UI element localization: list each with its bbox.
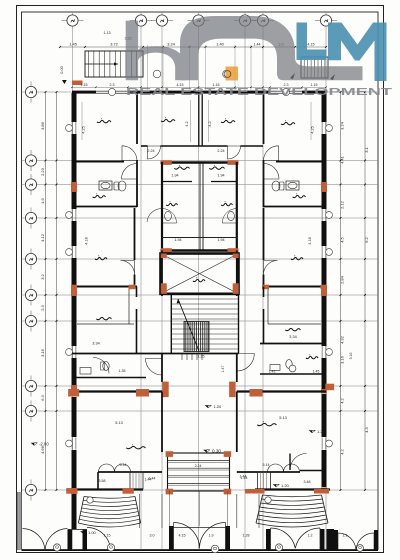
side bedroom bottom walls: [72, 161, 326, 163]
right kitchen label: [285, 328, 300, 330]
svg-text:4.2: 4.2: [185, 121, 189, 126]
row grid bubbles (left): [25, 82, 36, 501]
right bath door arc: [264, 164, 280, 180]
svg-text:3.48: 3.48: [304, 480, 311, 484]
left gate leaf: [87, 528, 111, 552]
svg-text:1.2: 1.2: [308, 534, 313, 538]
central bath arc L: [162, 209, 177, 224]
right bath label2: [306, 356, 318, 358]
svg-text:4.25: 4.25: [82, 126, 86, 133]
right bath bottom wall: [263, 206, 326, 208]
left garden fan steps: [78, 497, 140, 528]
svg-text:1.20: 1.20: [214, 404, 223, 409]
aux circle c: [289, 365, 296, 372]
right kitchen top wall: [262, 285, 327, 290]
bedroom2 label: [161, 119, 175, 121]
central bath label R: [221, 203, 232, 205]
svg-text:3.58: 3.58: [99, 479, 106, 483]
left gate arcs: [23, 529, 46, 552]
top dim line: [59, 41, 327, 48]
salon top wall: [68, 384, 334, 397]
property hatch bottom-left: [17, 492, 21, 550]
top entry stair: [85, 51, 143, 77]
left kitchen right wall: [136, 287, 138, 354]
porch side walls: [140, 494, 260, 528]
terrace base line: [22, 550, 379, 552]
central bath toilet R: [228, 211, 235, 220]
left bath sink: [99, 181, 112, 190]
right bath toilet: [286, 360, 292, 369]
HALM watermark logo: [126, 16, 394, 98]
svg-text:6.3: 6.3: [40, 394, 45, 400]
bedroom5 label: [95, 257, 107, 259]
rear band wall y353: [72, 353, 239, 355]
central block bottom wall: [161, 248, 239, 254]
svg-text:4.5: 4.5: [340, 236, 345, 242]
svg-text:1.9: 1.9: [40, 197, 45, 203]
rc gate arcs: [271, 528, 321, 548]
svg-text:4.15: 4.15: [179, 534, 186, 538]
svg-text:3.86: 3.86: [40, 121, 45, 130]
svg-text:1.44: 1.44: [149, 477, 156, 481]
corridor right wall: [236, 251, 238, 297]
bedroom6 left wall: [263, 208, 265, 286]
dressing label left: [174, 167, 189, 169]
right salon inner wall: [300, 470, 326, 472]
left salon bottom wall: [66, 488, 143, 494]
central block left wall: [161, 162, 163, 251]
svg-text:4.18: 4.18: [308, 237, 312, 244]
bedroom1 label: [97, 120, 111, 122]
svg-text:-2.00: -2.00: [39, 442, 49, 447]
svg-text:1.9: 1.9: [209, 534, 214, 538]
svg-text:5.14: 5.14: [120, 463, 127, 467]
hall door arc R: [237, 354, 255, 372]
svg-text:1.94: 1.94: [174, 238, 181, 242]
svg-text:4.66: 4.66: [40, 445, 45, 454]
right salon bay wall: [237, 471, 300, 473]
svg-text:3.24: 3.24: [340, 121, 345, 130]
left wc toilet: [103, 362, 109, 371]
top-right entry stair: [290, 57, 335, 80]
svg-text:5.14: 5.14: [263, 463, 270, 467]
terrace walls: [162, 392, 237, 453]
svg-text:4.2: 4.2: [340, 397, 345, 403]
svg-text:6.2: 6.2: [364, 236, 369, 242]
right salon door arc: [290, 454, 307, 471]
aux circle b: [223, 70, 231, 78]
svg-text:4.32: 4.32: [340, 335, 345, 344]
left salon bay sides: [97, 472, 99, 490]
svg-text:0.30: 0.30: [212, 449, 221, 454]
center gate lintel: [169, 527, 230, 529]
svg-text:2.3: 2.3: [40, 304, 45, 310]
fan circle L: [87, 497, 93, 503]
right bath top wall: [260, 343, 326, 345]
svg-text:2.24: 2.24: [217, 149, 224, 153]
svg-text:1.40: 1.40: [216, 41, 224, 46]
orange col below stair: [72, 81, 83, 86]
right bath sink2: [270, 365, 280, 371]
bedroom6 label: [291, 257, 303, 259]
orange corridor col L: [162, 382, 169, 398]
light well shaft: [161, 254, 239, 294]
svg-text:1.47: 1.47: [221, 366, 225, 373]
fan circle R: [265, 497, 271, 503]
svg-text:5.13: 5.13: [115, 420, 123, 425]
rc gate jambs: [266, 529, 271, 551]
left gate jambs: [68, 530, 73, 551]
door arc bedroom2: [148, 146, 161, 159]
svg-text:2.24: 2.24: [147, 149, 154, 153]
right bath bottom wall: [260, 373, 326, 375]
dressing label right: [209, 167, 224, 169]
svg-text:1.20: 1.20: [317, 429, 326, 434]
svg-text:1.94: 1.94: [217, 174, 224, 178]
center gate arcs: [174, 523, 226, 549]
svg-text:1.94: 1.94: [217, 238, 224, 242]
center gate jambs: [169, 526, 174, 551]
svg-text:1.45: 1.45: [313, 370, 320, 374]
corridor strip wall y146: [141, 145, 263, 147]
door arc bedroom1: [122, 146, 137, 161]
center rails: [169, 491, 227, 526]
door arc bedroom4: [264, 146, 279, 161]
central line y237: [162, 237, 237, 239]
central bath arc R: [222, 209, 237, 224]
svg-text:4.18: 4.18: [85, 237, 89, 244]
column grid bubbles (top): [62, 15, 338, 26]
svg-text:3.16: 3.16: [340, 355, 345, 364]
left bath door arc: [122, 164, 138, 180]
left salon bay wall: [98, 471, 162, 473]
corridor door L: [147, 208, 162, 222]
wall between bedroom1 and bedroom2 (x137): [136, 93, 138, 207]
right garden fan steps: [256, 495, 328, 527]
left salon label: [126, 446, 145, 448]
dressing/bath divider: [162, 181, 237, 183]
svg-text:2.24: 2.24: [195, 464, 202, 468]
center steps: [166, 451, 232, 494]
left porch col wall: [72, 494, 77, 529]
fr gate jambs: [327, 529, 335, 551]
svg-text:3.34: 3.34: [92, 342, 99, 346]
main staircase: [171, 295, 238, 354]
center drain: [211, 545, 219, 553]
svg-text:3.0: 3.0: [150, 534, 155, 538]
corridor left wall: [161, 251, 163, 297]
svg-text:5.13: 5.13: [279, 415, 287, 420]
bedroom5 right wall: [134, 208, 136, 286]
svg-text:4.2: 4.2: [208, 121, 212, 126]
left bath bottom wall: [72, 206, 137, 208]
right planter: [258, 472, 271, 489]
central partition x201: [199, 162, 201, 251]
central bath toilet L: [165, 211, 172, 220]
svg-text:3.1: 3.1: [364, 146, 369, 152]
left wc door arc: [93, 358, 109, 374]
left kitchen label: [96, 317, 111, 319]
svg-text:1.20: 1.20: [281, 483, 290, 488]
left bath toilet: [114, 182, 119, 190]
left kitchen counter: [77, 289, 134, 324]
svg-text:4.12: 4.12: [40, 233, 45, 242]
svg-text:2.23: 2.23: [40, 167, 45, 176]
svg-text:1.13: 1.13: [104, 31, 111, 35]
right bath toilet: [279, 182, 284, 190]
right salon label: [257, 423, 276, 425]
left kitchen top wall: [71, 285, 137, 290]
upper dim row: [71, 83, 327, 88]
left wc bottom wall: [72, 377, 146, 379]
hall door arc L: [146, 359, 163, 376]
svg-text:2.3: 2.3: [110, 83, 115, 87]
svg-text:3.16: 3.16: [40, 348, 45, 357]
central bath label L: [166, 203, 177, 205]
left bath label: [93, 195, 106, 197]
svg-text:1.44: 1.44: [240, 475, 247, 479]
aux circle a: [153, 70, 161, 78]
svg-text:1.15: 1.15: [104, 534, 111, 538]
stair lower treads: [182, 354, 202, 361]
right exterior wall: [321, 93, 332, 491]
bedroom3 label: [221, 120, 235, 122]
left dimension chain: [40, 91, 57, 491]
wall x200 center bedrooms: [199, 93, 202, 146]
central block right wall: [236, 162, 238, 251]
svg-text:2.12: 2.12: [340, 200, 345, 209]
bedroom dims vertical: [82, 121, 315, 133]
svg-text:3.72: 3.72: [110, 41, 118, 46]
svg-text:4.25: 4.25: [311, 126, 315, 133]
door arc bedroom3: [228, 146, 241, 159]
svg-text:0.00: 0.00: [60, 66, 64, 73]
svg-text:4.3: 4.3: [364, 426, 369, 432]
right bath sink: [286, 181, 299, 190]
right dimension chain: [340, 91, 369, 491]
corridor walls lower: [162, 354, 237, 383]
fr gate arcs: [338, 533, 374, 551]
svg-text:1.15: 1.15: [81, 83, 88, 87]
wall x263 bedrooms: [263, 93, 265, 207]
light well label: [193, 279, 205, 281]
left drains: [53, 544, 60, 551]
left porch lintel: [68, 529, 88, 531]
left wc sink: [80, 368, 91, 375]
rc drain: [275, 544, 282, 551]
svg-text:3.34: 3.34: [289, 335, 296, 339]
svg-text:2.84: 2.84: [340, 275, 345, 284]
right bath label: [293, 195, 306, 197]
bedroom dim lines: [82, 100, 311, 142]
dressing top wall: [161, 160, 239, 165]
right kitchen counter: [268, 289, 321, 324]
svg-text:1.94: 1.94: [171, 174, 178, 178]
left planter: [130, 472, 143, 489]
bedroom5 door arc: [121, 261, 135, 275]
svg-text:4.2: 4.2: [340, 448, 345, 454]
bedroom6 door arc: [264, 261, 278, 275]
svg-text:1.42: 1.42: [269, 370, 276, 374]
svg-text:1.35: 1.35: [119, 369, 126, 373]
svg-text:3.2: 3.2: [40, 273, 45, 279]
svg-text:4.15: 4.15: [308, 43, 315, 47]
bedroom4 label: [281, 122, 295, 124]
svg-text:1.25: 1.25: [197, 355, 204, 359]
orange corridor col R: [229, 382, 236, 398]
svg-text:REAL ESTATE DEVELOPMENT: REAL ESTATE DEVELOPMENT: [126, 87, 393, 98]
right kitchen left wall: [263, 287, 265, 344]
svg-text:3.24: 3.24: [167, 41, 175, 46]
svg-text:1.44: 1.44: [254, 43, 261, 47]
fr drain: [357, 545, 364, 552]
svg-text:1.28: 1.28: [243, 534, 250, 538]
left exterior wall: [66, 93, 77, 494]
svg-text:4.41: 4.41: [340, 155, 345, 164]
top extension lines: [148, 45, 252, 90]
left salon dim line: [80, 410, 160, 412]
right salon bottom wall: [245, 489, 330, 494]
svg-text:3.16: 3.16: [349, 353, 353, 360]
svg-text:1.45: 1.45: [69, 41, 77, 46]
top exterior wall: [72, 88, 326, 95]
left salon french door: [99, 464, 115, 472]
svg-text:1.00: 1.00: [88, 530, 97, 535]
svg-text:1.1: 1.1: [343, 534, 348, 538]
right salon french door: [268, 464, 284, 472]
